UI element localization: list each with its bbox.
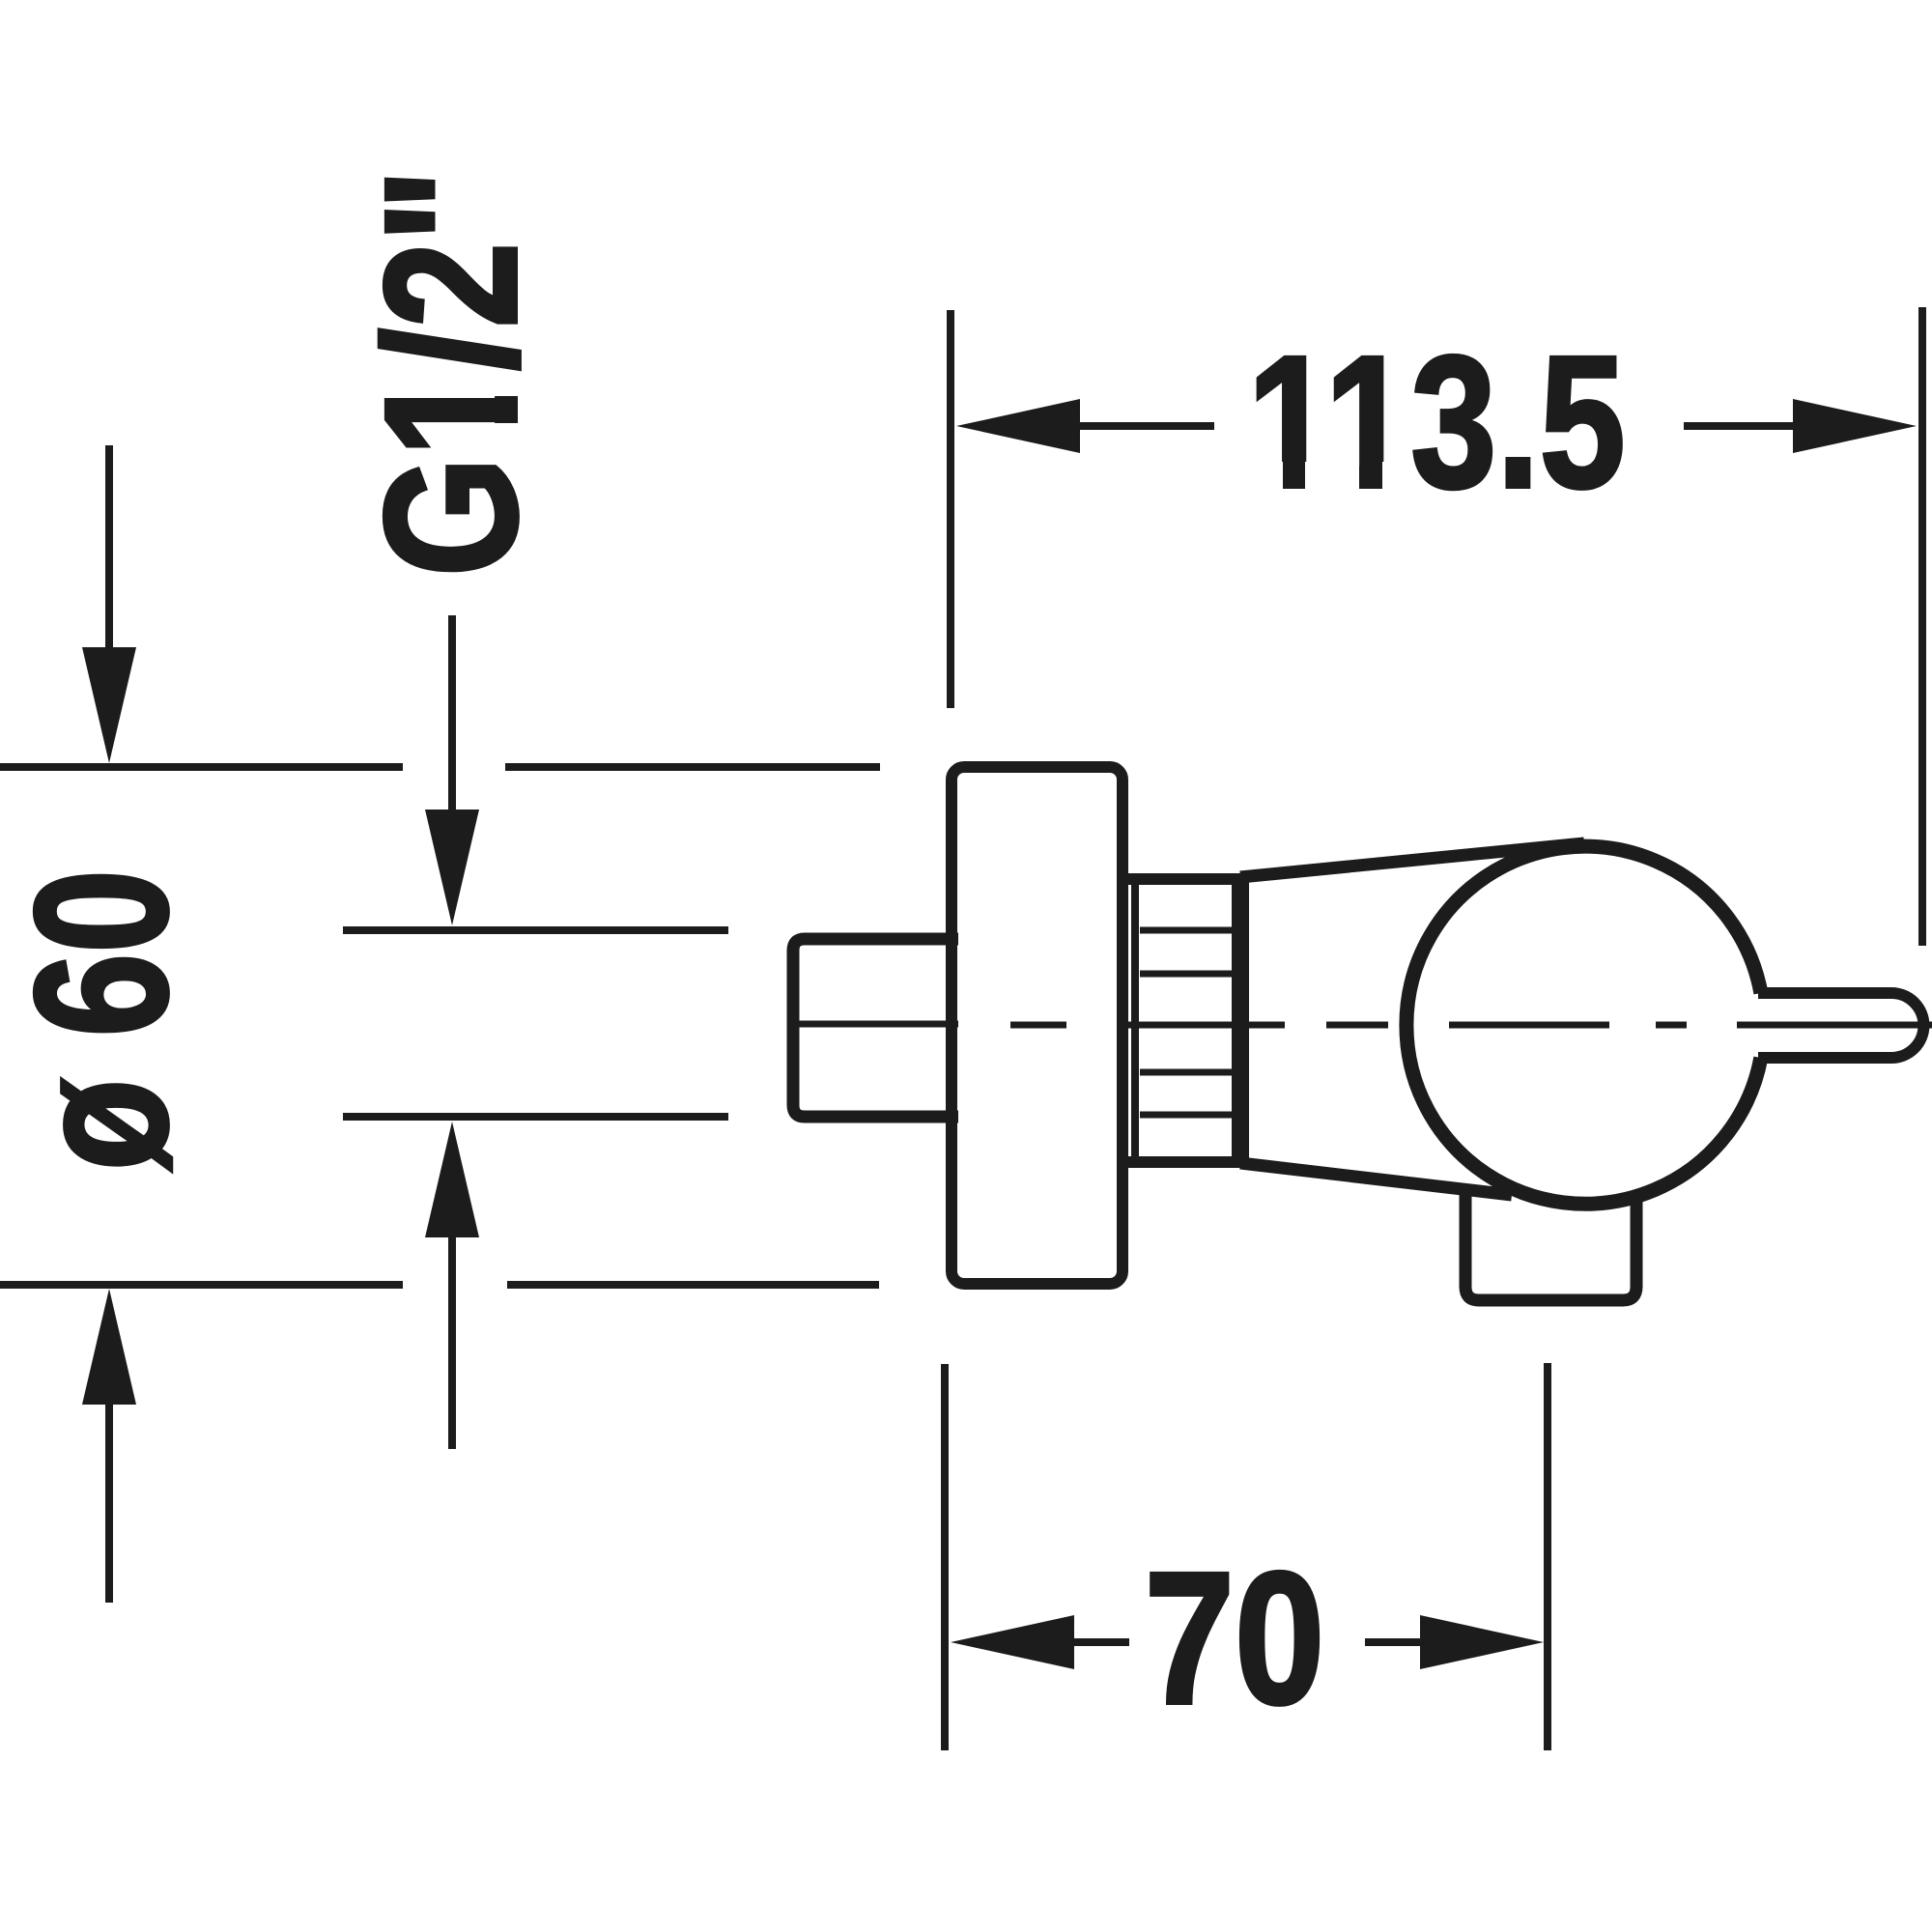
- spindle stem: [1758, 993, 1923, 1058]
- dimension arrow down (ø60 top): [82, 445, 136, 763]
- knurled adjuster ring: [1128, 879, 1240, 1162]
- dimension arrow up (ø60 bottom): [82, 1289, 136, 1603]
- extension line plate bottom: [0, 1281, 879, 1289]
- dimension 70 right extension line (spout axis): [1544, 1363, 1551, 1750]
- svg-text:113.5: 113.5: [1247, 317, 1625, 527]
- outlet spout: [1465, 1188, 1636, 1300]
- extension line plate top: [0, 763, 880, 771]
- dimension 113.5 right extension line: [1918, 307, 1926, 946]
- label G1/2" (rotated): [346, 169, 556, 577]
- svg-text:ø 60: ø 60: [0, 869, 207, 1171]
- dimension line 70 with arrowheads: [951, 1615, 1544, 1669]
- dimension 113.5 left extension line: [947, 310, 954, 708]
- leader arrow up to thread bottom line: [425, 1122, 479, 1449]
- hex connector nut: [793, 939, 958, 1117]
- valve body cone: [1240, 843, 1584, 1195]
- extension line G1/2 bottom (thread bottom): [343, 1113, 728, 1121]
- control knob (circle): [1406, 846, 1761, 1204]
- svg-text:70: 70: [1145, 1532, 1325, 1744]
- wall plate (escutcheon): [952, 767, 1122, 1284]
- dimension 70 left extension line: [941, 1364, 949, 1750]
- label 113.5: [1247, 317, 1625, 527]
- svg-text:G1/2": G1/2": [346, 169, 556, 577]
- extension line G1/2 top (thread top): [343, 926, 728, 934]
- leader arrow down from G1/2 label: [425, 615, 479, 925]
- dimension line 113.5 with arrowheads: [956, 399, 1917, 453]
- centerline (dash-dot axis): [1010, 1022, 1932, 1029]
